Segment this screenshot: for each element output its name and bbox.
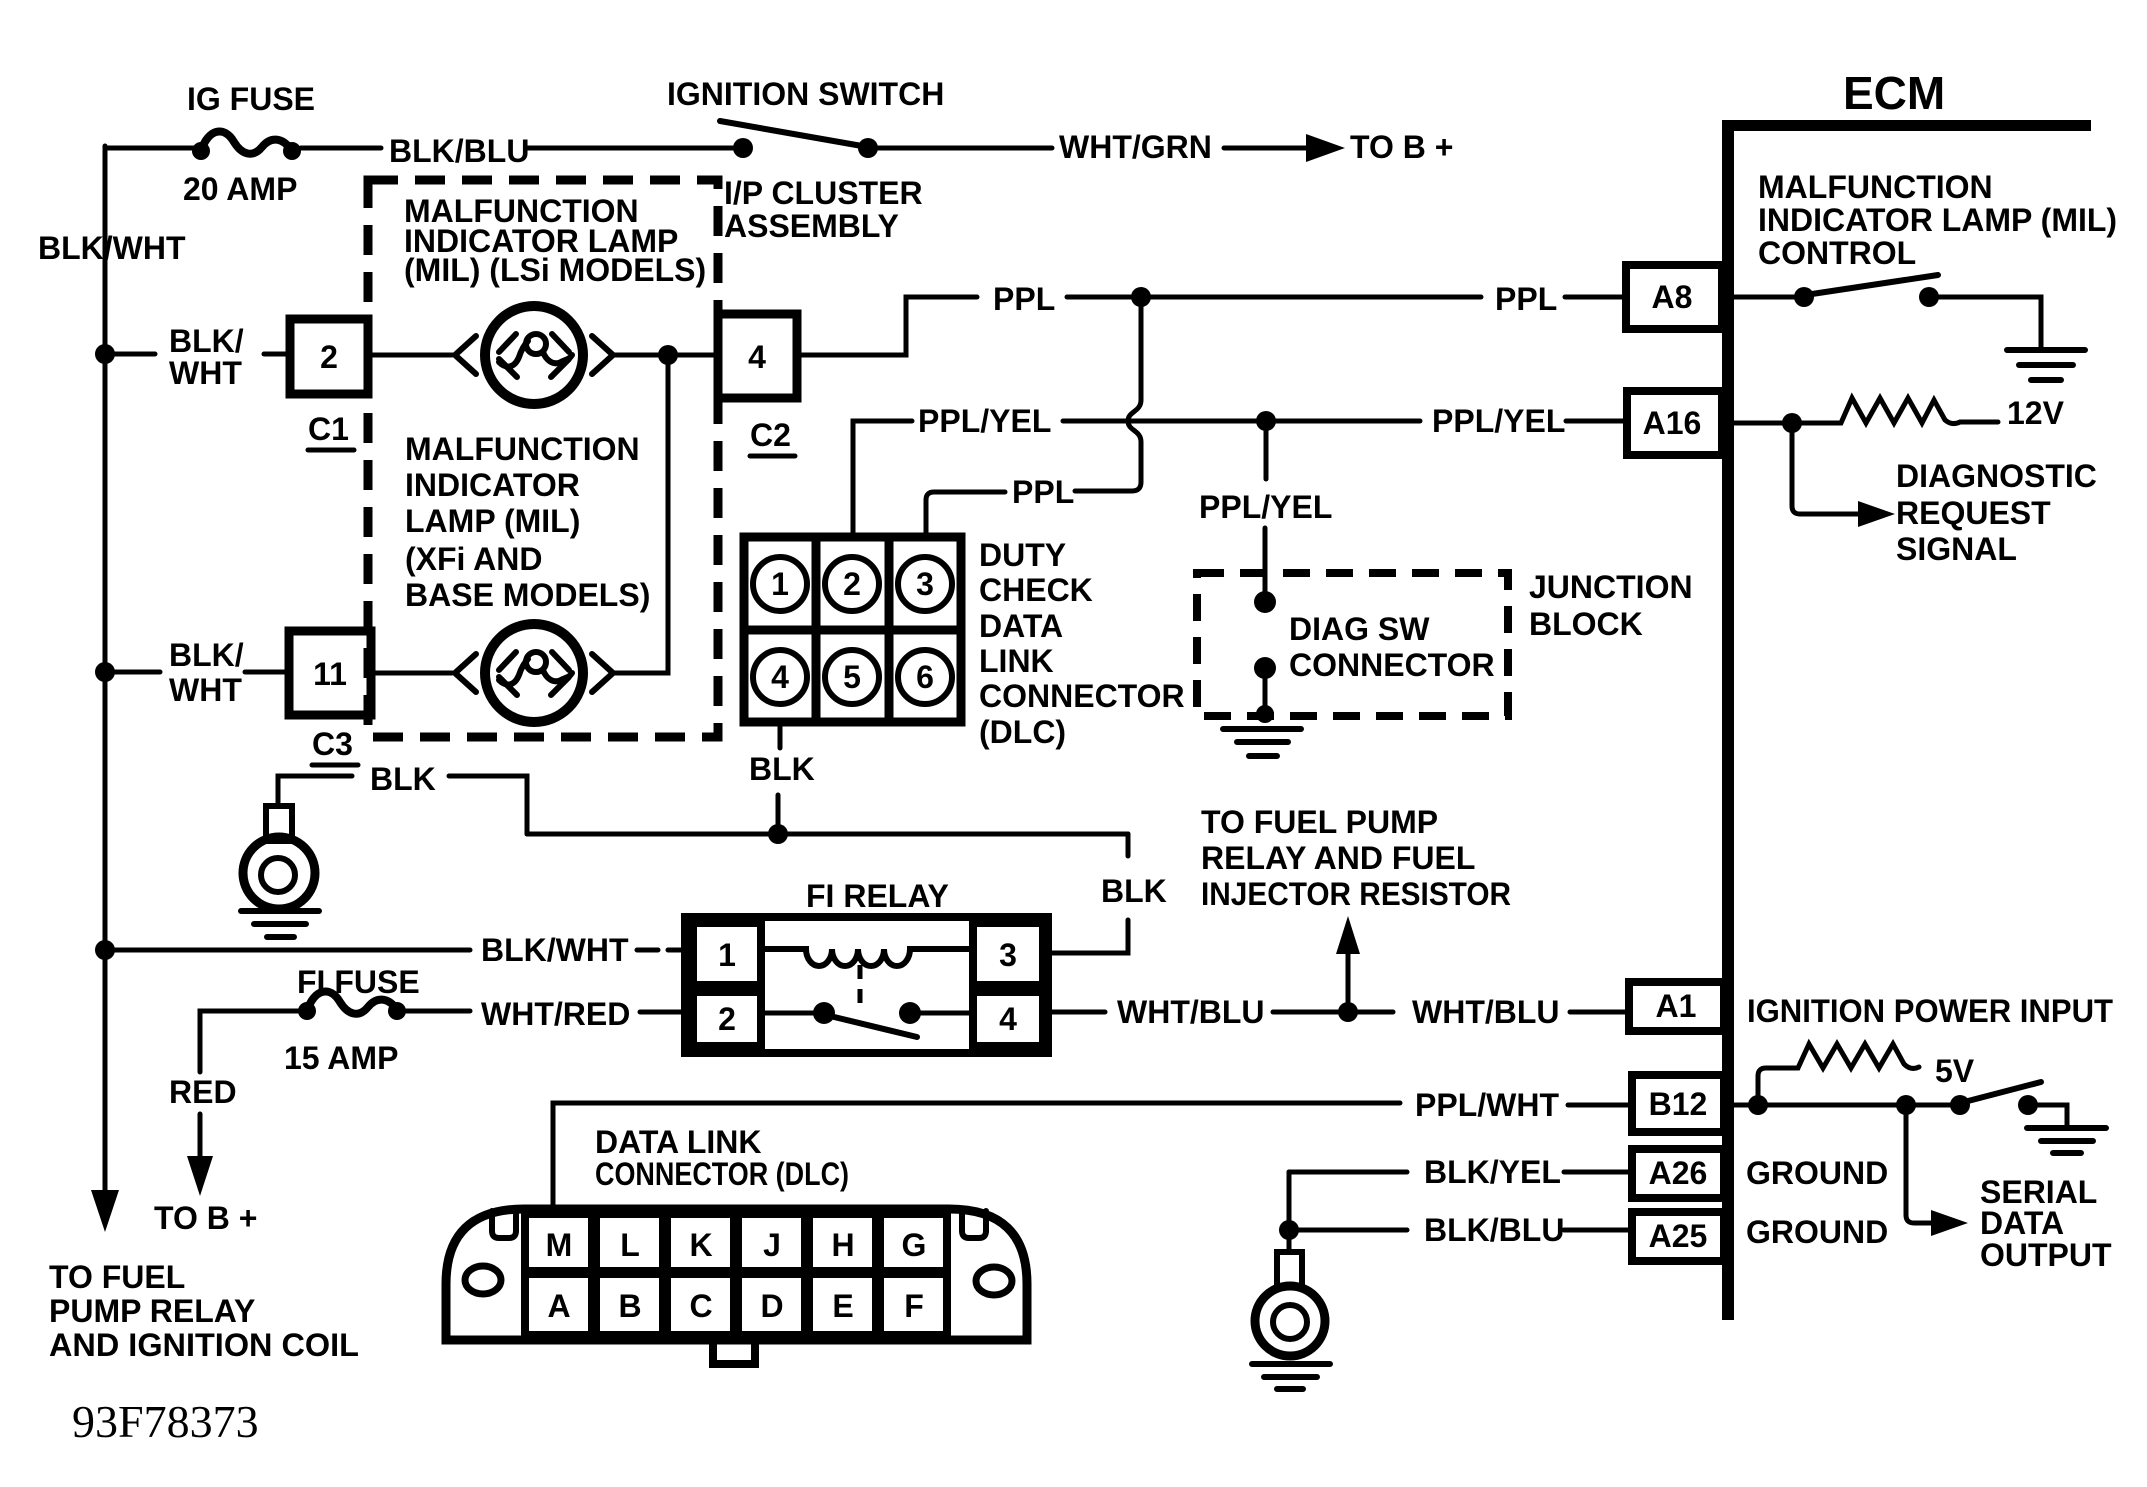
svg-text:C2: C2	[750, 417, 791, 453]
arrow to B+ top	[1224, 146, 1310, 151]
svg-text:GROUND: GROUND	[1746, 1214, 1888, 1250]
DLC mounting hole right	[976, 1267, 1012, 1295]
resistor pull-up 12V	[1802, 398, 1998, 424]
relay pin 3	[973, 923, 1043, 985]
relay coil	[761, 949, 973, 966]
ground ring terminal right	[1277, 1252, 1302, 1286]
ground below diag sw connector	[1223, 729, 1301, 756]
wire BLK/YEL riser	[1287, 1172, 1292, 1230]
ECM boundary vertical bar	[1722, 120, 1734, 1320]
arrow to fuel pump relay and ignition coil	[91, 1190, 119, 1232]
connector pin 11 (C3)	[289, 631, 371, 715]
svg-text:BLK/BLU: BLK/BLU	[389, 133, 529, 169]
svg-text:(XFi AND: (XFi AND	[405, 541, 542, 577]
svg-text:DATA: DATA	[979, 608, 1063, 644]
DLC shell notch left	[492, 1211, 516, 1238]
node dot MIL switch left	[1794, 287, 1814, 307]
svg-text:INDICATOR LAMP (MIL): INDICATOR LAMP (MIL)	[1758, 202, 2117, 238]
wire BLK horizontal	[527, 832, 1128, 837]
wire BLK stub to junction	[776, 795, 781, 829]
DLC pin 2	[825, 557, 879, 611]
svg-text:6: 6	[916, 659, 934, 695]
wire BLK riser lower	[1048, 920, 1128, 953]
svg-text:TO FUEL PUMP: TO FUEL PUMP	[1201, 804, 1438, 840]
svg-text:C: C	[689, 1288, 712, 1324]
wire to ground ring terminal right	[1287, 1230, 1292, 1252]
svg-text:LINK: LINK	[979, 643, 1054, 679]
wire BLK/BLU	[301, 146, 381, 151]
node dot serial switch left	[1950, 1095, 1970, 1115]
node dot PPL junction	[1131, 287, 1151, 307]
svg-text:BLK/: BLK/	[169, 323, 244, 359]
svg-text:MALFUNCTION: MALFUNCTION	[405, 431, 640, 467]
ground serial switch	[2027, 1128, 2106, 1153]
svg-text:INDICATOR: INDICATOR	[405, 467, 580, 503]
svg-text:MALFUNCTION: MALFUNCTION	[1758, 169, 1993, 205]
DLC pin H	[809, 1214, 876, 1271]
svg-text:A8: A8	[1652, 279, 1693, 315]
svg-text:IGNITION SWITCH: IGNITION SWITCH	[667, 76, 944, 112]
svg-text:PPL/YEL: PPL/YEL	[1432, 403, 1565, 439]
node dot C1/C3 junction	[658, 345, 678, 365]
svg-text:ASSEMBLY: ASSEMBLY	[724, 208, 899, 244]
svg-text:4: 4	[771, 659, 789, 695]
connector pin A25	[1632, 1212, 1724, 1261]
DLC pin 4	[753, 650, 807, 704]
connector pin A8	[1626, 265, 1722, 329]
svg-text:CONNECTOR (DLC): CONNECTOR (DLC)	[595, 1156, 849, 1192]
DLC pin 3	[898, 557, 952, 611]
data link connector DLC shell	[446, 1209, 1027, 1340]
wire PPL riser with hop over PPL/YEL	[1075, 297, 1141, 491]
wire serial switch to ground	[2038, 1105, 2067, 1126]
wire top row to IG fuse	[105, 146, 194, 151]
svg-text:E: E	[832, 1288, 853, 1324]
svg-text:WHT/BLU: WHT/BLU	[1117, 994, 1265, 1030]
junction block / diag sw connector dashed box	[1197, 573, 1508, 716]
DLC pin L	[596, 1214, 663, 1271]
node dot A16 junction	[1782, 413, 1802, 433]
svg-text:BLK/WHT: BLK/WHT	[38, 230, 186, 266]
wire A16 inside ECM	[1734, 421, 1798, 426]
duty check data link connector DLC grid	[744, 537, 961, 722]
svg-text:LAMP (MIL): LAMP (MIL)	[405, 503, 580, 539]
svg-text:BLK/BLU: BLK/BLU	[1424, 1212, 1564, 1248]
svg-text:93F78373: 93F78373	[72, 1396, 259, 1447]
node dot diag sw ground	[1256, 705, 1274, 723]
connector pin 4 (C2)	[718, 314, 797, 398]
ground MIL control	[2007, 350, 2085, 380]
wire BLK riser to relay pin 3	[1126, 834, 1131, 856]
DLC pin 1	[753, 557, 807, 611]
wire PPL/YEL drop 2	[1263, 528, 1268, 592]
svg-text:WHT: WHT	[169, 355, 242, 391]
wire B12 inside ECM	[1734, 1103, 1952, 1108]
wire bus to pin 11	[105, 670, 160, 675]
svg-text:SIGNAL: SIGNAL	[1896, 531, 2017, 567]
svg-text:DIAGNOSTIC: DIAGNOSTIC	[1896, 458, 2097, 494]
DLC pin F	[880, 1274, 947, 1335]
svg-text:BASE MODELS): BASE MODELS)	[405, 577, 650, 613]
serial switch lever	[1968, 1082, 2041, 1101]
relay pin 1	[693, 923, 761, 985]
svg-text:D: D	[760, 1288, 783, 1324]
svg-text:DIAG SW: DIAG SW	[1289, 611, 1430, 647]
svg-text:CHECK: CHECK	[979, 572, 1093, 608]
connector pin A1	[1629, 982, 1724, 1031]
MIL control switch lever	[1812, 275, 1938, 294]
node dot ground junction	[1279, 1220, 1299, 1240]
wire WHT/BLU from relay pin 4	[1048, 1010, 1105, 1015]
wire WHT/GRN	[878, 146, 1052, 151]
svg-text:WHT/RED: WHT/RED	[481, 996, 630, 1032]
wire BLK/BLU into A25	[1564, 1228, 1632, 1233]
svg-text:CONTROL: CONTROL	[1758, 235, 1916, 271]
svg-text:GROUND: GROUND	[1746, 1155, 1888, 1191]
svg-text:2: 2	[718, 1001, 736, 1037]
svg-text:(MIL) (LSi MODELS): (MIL) (LSi MODELS)	[404, 252, 706, 288]
wire serial data output arrow	[1906, 1105, 1937, 1223]
connector pin 2 (C1)	[290, 319, 368, 394]
svg-text:PPL: PPL	[1012, 474, 1074, 510]
wire PPL/WHT from DLC	[553, 1103, 1400, 1209]
svg-text:K: K	[689, 1227, 712, 1263]
svg-text:RED: RED	[169, 1074, 237, 1110]
svg-text:BLK/WHT: BLK/WHT	[481, 932, 629, 968]
node dot serial switch right	[2018, 1095, 2038, 1115]
DLC pin K	[667, 1214, 734, 1271]
connector pin B12	[1632, 1075, 1724, 1132]
relay pin 2	[693, 992, 761, 1046]
svg-text:INJECTOR RESISTOR: INJECTOR RESISTOR	[1201, 876, 1511, 912]
DLC pin C	[667, 1274, 734, 1335]
svg-text:A: A	[547, 1288, 570, 1324]
svg-text:B: B	[618, 1288, 641, 1324]
svg-text:A25: A25	[1649, 1218, 1708, 1254]
wire diagnostic request arrow	[1792, 423, 1862, 514]
svg-text:BLK/: BLK/	[169, 637, 244, 673]
svg-text:RELAY AND FUEL: RELAY AND FUEL	[1201, 840, 1475, 876]
wire BLK from grid pin 4	[778, 722, 783, 748]
wire PPL/WHT into B12	[1568, 1103, 1632, 1108]
svg-text:L: L	[620, 1227, 640, 1263]
svg-text:OUTPUT: OUTPUT	[1980, 1237, 2112, 1273]
svg-text:WHT: WHT	[169, 672, 242, 708]
svg-text:1: 1	[771, 566, 789, 602]
wire PPL from pin 4	[797, 297, 977, 355]
svg-text:12V: 12V	[2007, 395, 2065, 431]
svg-text:2: 2	[320, 339, 338, 375]
svg-text:WHT/BLU: WHT/BLU	[1412, 994, 1560, 1030]
svg-text:PPL/YEL: PPL/YEL	[1199, 489, 1332, 525]
svg-text:F: F	[904, 1288, 924, 1324]
svg-text:4: 4	[999, 1001, 1017, 1037]
DLC shell notch right	[962, 1211, 986, 1238]
relay switch contacts	[761, 1011, 816, 1016]
svg-text:3: 3	[916, 566, 934, 602]
wire PPL/YEL drop to diag sw connector	[1264, 421, 1269, 479]
svg-text:(DLC): (DLC)	[979, 714, 1066, 750]
DLC pin A	[525, 1274, 592, 1335]
svg-text:H: H	[831, 1227, 854, 1263]
DLC pin J	[738, 1214, 805, 1271]
wire BLK/YEL	[1289, 1170, 1407, 1175]
wire PPL/YEL to A16	[1063, 419, 1420, 424]
fuse F2 FI FUSE	[298, 1002, 316, 1020]
wire pin2 to lamp1	[368, 353, 452, 358]
svg-text:TO B +: TO B +	[154, 1200, 257, 1236]
wire PPL/YEL from grid pin 2	[853, 421, 912, 537]
wire PPL to grid pin 3	[926, 492, 1005, 537]
svg-text:J: J	[763, 1227, 781, 1263]
relay K1 FI RELAY outer box	[685, 917, 1048, 1053]
DLC mounting hole left	[465, 1266, 501, 1294]
svg-text:BLK/YEL: BLK/YEL	[1424, 1154, 1561, 1190]
svg-text:JUNCTION: JUNCTION	[1529, 569, 1693, 605]
svg-text:BLOCK: BLOCK	[1529, 606, 1643, 642]
DLC pin G	[880, 1214, 947, 1271]
svg-text:BLK: BLK	[1101, 873, 1167, 909]
wire diag sw to ground	[1263, 668, 1268, 714]
node dot serial data tap	[1896, 1095, 1916, 1115]
wire MIL control inside ECM	[1734, 295, 1796, 300]
arrow RED to B+	[198, 1114, 203, 1176]
svg-text:3: 3	[999, 937, 1017, 973]
wire PPL/YEL into A16	[1566, 419, 1627, 424]
wire WHT/RED	[405, 1009, 470, 1014]
svg-text:IG FUSE: IG FUSE	[187, 81, 315, 117]
connector pin A26	[1632, 1149, 1724, 1198]
svg-text:TO B +: TO B +	[1350, 129, 1453, 165]
svg-text:PPL/YEL: PPL/YEL	[918, 403, 1051, 439]
wire BLK/BLU to ignition switch	[528, 146, 735, 151]
lamp MIL 1 (LSi models)	[455, 336, 476, 374]
svg-text:FI RELAY: FI RELAY	[806, 878, 949, 914]
wire PPL to A8	[1067, 295, 1481, 300]
connector pin A16	[1627, 391, 1722, 455]
svg-text:BLK: BLK	[749, 751, 815, 787]
wire left bus BLK/WHT vertical	[103, 146, 108, 1192]
svg-text:ECM: ECM	[1843, 67, 1945, 119]
DLC pin 6	[898, 650, 952, 704]
svg-text:REQUEST: REQUEST	[1896, 495, 2051, 531]
svg-text:CONNECTOR: CONNECTOR	[979, 678, 1185, 714]
svg-text:A16: A16	[1643, 405, 1702, 441]
lamp MIL 2 (XFi and base models)	[455, 654, 476, 692]
svg-text:BLK: BLK	[370, 761, 436, 797]
svg-text:IGNITION POWER INPUT: IGNITION POWER INPUT	[1747, 993, 2113, 1029]
wire pin11 to lamp2	[371, 671, 452, 676]
node dot bus BLK/WHT relay row	[95, 940, 115, 960]
svg-text:DUTY: DUTY	[979, 537, 1066, 573]
wire BLK to left ground	[449, 776, 527, 834]
ECM boundary top bar	[1722, 120, 2091, 131]
wire lamp1 to node	[613, 353, 718, 358]
wire WHT/RED into relay pin 2	[640, 1010, 693, 1015]
wire PPL into A8	[1565, 295, 1626, 300]
wire BLK/YEL into A26	[1564, 1170, 1632, 1175]
wire WHT/BLU mid	[1273, 1010, 1393, 1015]
node dot BLK junction	[768, 824, 788, 844]
wire MIL switch to ground	[1939, 297, 2041, 349]
svg-text:15 AMP: 15 AMP	[284, 1040, 398, 1076]
node dot diag sw pin 2	[1254, 657, 1276, 679]
svg-text:C1: C1	[308, 411, 349, 447]
svg-text:CONNECTOR: CONNECTOR	[1289, 647, 1495, 683]
node dot PPL/YEL junction	[1256, 411, 1276, 431]
wire bus to pin 2	[105, 352, 155, 357]
relay actuator dashed link	[858, 965, 863, 1008]
svg-text:C3: C3	[312, 726, 353, 762]
svg-text:I/P CLUSTER: I/P CLUSTER	[724, 175, 923, 211]
svg-text:AND IGNITION COIL: AND IGNITION COIL	[49, 1327, 359, 1363]
wire BLK/BLU bottom	[1289, 1228, 1407, 1233]
wire WHT/BLU into A1	[1570, 1010, 1629, 1015]
node dot left bus row C3	[95, 662, 115, 682]
wire lamp2 up to C1 node	[613, 355, 668, 673]
svg-text:PPL/WHT: PPL/WHT	[1415, 1087, 1559, 1123]
svg-text:4: 4	[748, 339, 766, 375]
arrow to fuel pump relay and fuel injector resistor	[1346, 952, 1351, 1012]
wire into FI fuse	[200, 1011, 299, 1072]
svg-text:PPL: PPL	[1495, 281, 1557, 317]
svg-text:WHT/GRN: WHT/GRN	[1059, 129, 1212, 165]
fuse F1 IG FUSE 20 AMP	[192, 142, 210, 160]
svg-text:M: M	[546, 1227, 573, 1263]
DLC pin M	[525, 1214, 592, 1271]
wire BLK/WHT into relay pin 1	[637, 948, 685, 953]
svg-text:G: G	[902, 1227, 927, 1263]
svg-text:20 AMP: 20 AMP	[183, 171, 297, 207]
svg-text:B12: B12	[1649, 1086, 1708, 1122]
DLC pin E	[809, 1274, 876, 1335]
svg-text:1: 1	[718, 937, 736, 973]
svg-text:11: 11	[313, 656, 347, 692]
node dot B12 resistor tap	[1748, 1095, 1768, 1115]
relay pin 4	[973, 992, 1043, 1046]
svg-text:5V: 5V	[1935, 1053, 1975, 1089]
node dot WHT/BLU junction	[1338, 1002, 1358, 1022]
resistor pull-up 5V	[1758, 1044, 1919, 1105]
DLC pin B	[596, 1274, 663, 1335]
DLC pin 5	[825, 650, 879, 704]
svg-text:DATA: DATA	[1980, 1205, 2064, 1241]
wire BLK/WHT to relay	[105, 948, 470, 953]
node dot left bus row C1	[95, 344, 115, 364]
DLC bottom tab	[713, 1338, 755, 1364]
node dot diag sw pin 1	[1254, 591, 1276, 613]
ground ring terminal left	[266, 806, 292, 841]
svg-text:5: 5	[843, 659, 861, 695]
svg-text:PUMP RELAY: PUMP RELAY	[49, 1293, 255, 1329]
svg-text:A1: A1	[1656, 988, 1697, 1024]
svg-text:DATA LINK: DATA LINK	[595, 1124, 761, 1160]
I/P cluster assembly dashed box	[368, 180, 718, 737]
node dot MIL switch right	[1919, 287, 1939, 307]
wire BLK into ground terminal	[278, 776, 352, 806]
svg-text:TO FUEL: TO FUEL	[49, 1259, 185, 1295]
ignition switch S1	[733, 138, 753, 158]
wire into pin 2	[264, 352, 290, 357]
wire into pin 11	[245, 670, 289, 675]
DLC pin D	[738, 1274, 805, 1335]
svg-text:2: 2	[843, 566, 861, 602]
svg-text:A26: A26	[1649, 1155, 1708, 1191]
svg-text:PPL: PPL	[993, 281, 1055, 317]
